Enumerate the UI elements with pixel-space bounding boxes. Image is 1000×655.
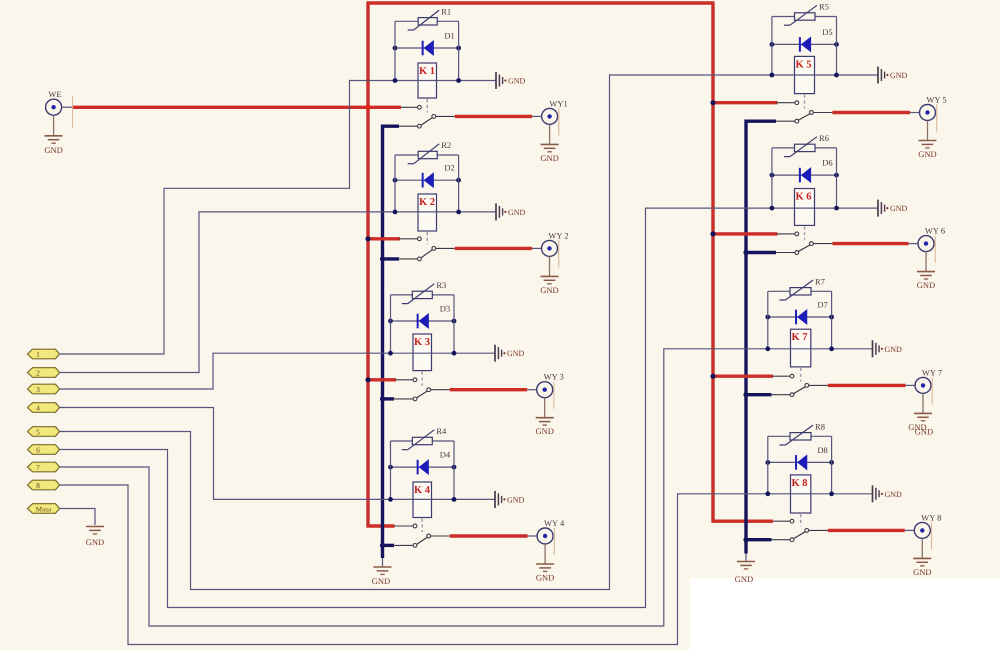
wire: K4 common to WY4 (431, 535, 450, 537)
diode D1 (395, 47, 459, 49)
ground: WY2 GND (549, 256, 551, 276)
svg-text:GND: GND (735, 574, 753, 584)
svg-text:GND: GND (913, 567, 931, 577)
svg-text:D6: D6 (822, 158, 832, 168)
ground: WY4 GND (544, 544, 546, 564)
svg-text:2: 2 (36, 368, 40, 377)
svg-text:GND: GND (885, 490, 903, 499)
svg-text:GND: GND (915, 426, 933, 436)
svg-text:K 3: K 3 (414, 337, 430, 348)
ground: WY7 GND (922, 393, 924, 413)
svg-text:K 6: K 6 (795, 192, 811, 203)
relay coil K2 (394, 155, 396, 212)
diode D4 (391, 466, 455, 468)
connector WY5 (920, 105, 936, 121)
wire: K8 common to WY8 (809, 529, 828, 531)
switch K2 contacts (426, 232, 428, 244)
ground: left navy bus GND (382, 558, 384, 567)
ground: Masa GND (86, 526, 104, 528)
wire: K2 common to WY2 (436, 247, 455, 249)
wire: WE feed red horizontal (72, 106, 401, 109)
svg-text:WY 6: WY 6 (925, 226, 945, 236)
svg-text:GND: GND (540, 285, 558, 295)
svg-text:GND: GND (890, 204, 908, 213)
wire: port 5 to coil K5 (60, 75, 772, 590)
ground: WE GND (45, 135, 63, 137)
wire: K6 common to WY6 (814, 243, 833, 245)
ground: right navy bus GND (745, 554, 747, 562)
diode D6 (772, 174, 837, 176)
svg-text:7: 7 (36, 463, 40, 472)
connector WE (46, 99, 62, 115)
svg-text:Masa: Masa (36, 505, 52, 513)
power port GND (K5 coil) (877, 67, 879, 84)
svg-text:K 7: K 7 (791, 332, 807, 343)
wire: +V red bus right vertical (713, 3, 773, 521)
svg-text:6: 6 (36, 445, 40, 454)
svg-text:5: 5 (36, 427, 40, 436)
relay coil K4 (390, 441, 392, 499)
svg-text:WY 4: WY 4 (544, 518, 565, 528)
port 7 (28, 462, 60, 472)
svg-text:R7: R7 (815, 276, 825, 286)
svg-text:R1: R1 (441, 6, 451, 16)
resistor R7 (768, 290, 790, 292)
svg-text:K 8: K 8 (791, 478, 807, 489)
diode D3 (391, 320, 455, 322)
wire: port 2 to coil K2 (60, 212, 395, 373)
ground: WY5 GND (927, 121, 929, 141)
svg-text:GND: GND (44, 145, 62, 155)
wire: Masa to ground (60, 509, 96, 526)
svg-text:K 2: K 2 (419, 197, 435, 208)
resistor R1 (395, 20, 418, 22)
wire: port 1 to coil K1 (60, 81, 396, 355)
switch K6 contacts (804, 226, 806, 239)
power port GND (K6 coil) (877, 200, 879, 217)
port 1 (28, 349, 60, 359)
svg-text:GND: GND (536, 573, 554, 583)
switch K5 contacts (804, 95, 806, 109)
wire: K1 common to WY1 (436, 115, 455, 117)
svg-text:WY 7: WY 7 (922, 367, 942, 377)
port 8 (28, 480, 60, 490)
svg-text:1: 1 (36, 350, 40, 359)
port 6 (28, 445, 60, 455)
svg-text:WE: WE (48, 89, 61, 99)
svg-text:R5: R5 (819, 2, 829, 12)
resistor R6 (772, 147, 795, 149)
svg-text:GND: GND (372, 576, 390, 586)
diode D7 (768, 316, 832, 318)
power port GND (K8 coil) (872, 485, 874, 502)
svg-text:R2: R2 (441, 140, 451, 150)
relay coil K6 (771, 148, 773, 208)
port 3 (28, 384, 60, 394)
wire: port 3 to coil K3 (60, 353, 391, 389)
switch K7 contacts (800, 368, 802, 382)
power port GND (K4 coil) (494, 491, 496, 508)
resistor R8 (768, 435, 790, 437)
wire: port 6 to coil K6 (60, 208, 772, 607)
wire: NO common navy right vertical (746, 121, 776, 553)
wire: +V red bus left vertical (368, 3, 395, 526)
switch K8 contacts (800, 514, 802, 526)
svg-text:R4: R4 (436, 426, 447, 436)
svg-text:GND: GND (885, 345, 903, 354)
power port GND (K7 coil) (872, 340, 874, 357)
wire: NO common navy left vertical (383, 126, 400, 558)
relay coil K1 (394, 21, 396, 80)
switch K3 contacts (421, 372, 423, 386)
junction: red bus x WE feed (365, 105, 371, 111)
wire: K7 common to WY7 (809, 384, 828, 386)
connector WY7 (915, 377, 931, 393)
wire: port 4 to coil K4 (60, 408, 391, 500)
switch K1 contacts (426, 99, 428, 112)
svg-text:D5: D5 (822, 27, 832, 37)
svg-text:WY1: WY1 (549, 98, 567, 108)
resistor R3 (391, 294, 413, 296)
svg-text:GND: GND (917, 280, 935, 290)
wire: +V red bus top horizontal (367, 1, 715, 4)
svg-text:D3: D3 (440, 304, 450, 314)
relay coil K3 (390, 295, 392, 353)
svg-text:GND: GND (890, 71, 908, 80)
power port GND (K1 coil) (495, 72, 497, 89)
svg-text:GND: GND (86, 537, 104, 547)
svg-text:D4: D4 (440, 450, 451, 460)
port 4 (28, 403, 60, 413)
svg-text:GND: GND (508, 208, 526, 217)
svg-text:R6: R6 (819, 133, 829, 143)
svg-text:GND: GND (535, 426, 553, 436)
wire: K5 common to WY5 (814, 112, 833, 114)
svg-text:3: 3 (36, 385, 40, 394)
wire: WE to GND (53, 115, 55, 135)
ground: WY6 GND (925, 252, 927, 272)
svg-text:R3: R3 (436, 280, 446, 290)
relay coil K5 (771, 17, 773, 76)
wire: K3 common to WY3 (431, 389, 450, 391)
power port GND (K2 coil) (495, 203, 497, 220)
relay coil K8 (767, 436, 769, 494)
port Masa (28, 504, 60, 514)
port 2 (28, 368, 60, 378)
resistor R4 (391, 440, 413, 442)
diode D8 (768, 461, 832, 463)
resistor R5 (772, 16, 795, 18)
svg-text:D1: D1 (444, 31, 454, 41)
svg-text:WY 8: WY 8 (921, 512, 941, 522)
svg-text:GND: GND (918, 149, 936, 159)
svg-text:4: 4 (36, 403, 40, 412)
svg-text:8: 8 (36, 481, 40, 490)
connector WY2 (542, 240, 558, 256)
resistor R2 (395, 154, 418, 156)
ground: WY3 GND (544, 398, 546, 418)
diode D5 (772, 43, 837, 45)
wire: port 8 to coil K8 (60, 485, 768, 645)
svg-text:WY 3: WY 3 (544, 372, 564, 382)
connector WY4 (537, 528, 553, 544)
diode D2 (395, 179, 459, 181)
connector WY1 (542, 108, 558, 124)
connector WY3 (537, 382, 553, 398)
svg-text:D7: D7 (817, 300, 827, 310)
svg-text:K 1: K 1 (419, 66, 435, 77)
svg-text:D8: D8 (817, 445, 827, 455)
power port GND (K3 coil) (494, 345, 496, 362)
svg-text:GND: GND (507, 349, 525, 358)
ground: WY1 GND (549, 124, 551, 143)
connector WY8 (914, 522, 930, 538)
ground: WY8 GND (921, 538, 923, 558)
svg-text:K 4: K 4 (414, 485, 431, 496)
svg-text:GND: GND (507, 495, 525, 504)
connector WY6 (918, 236, 934, 252)
svg-text:K 5: K 5 (795, 59, 811, 70)
svg-text:WY 2: WY 2 (548, 230, 568, 240)
svg-text:R8: R8 (815, 421, 825, 431)
svg-text:WY 5: WY 5 (926, 95, 946, 105)
switch K4 contacts (421, 519, 423, 533)
svg-text:D2: D2 (444, 163, 454, 173)
port 5 (28, 427, 60, 437)
svg-text:GND: GND (540, 153, 558, 163)
wire: port 7 to coil K7 (60, 349, 768, 626)
relay coil K7 (767, 291, 769, 349)
svg-text:GND: GND (508, 77, 526, 86)
